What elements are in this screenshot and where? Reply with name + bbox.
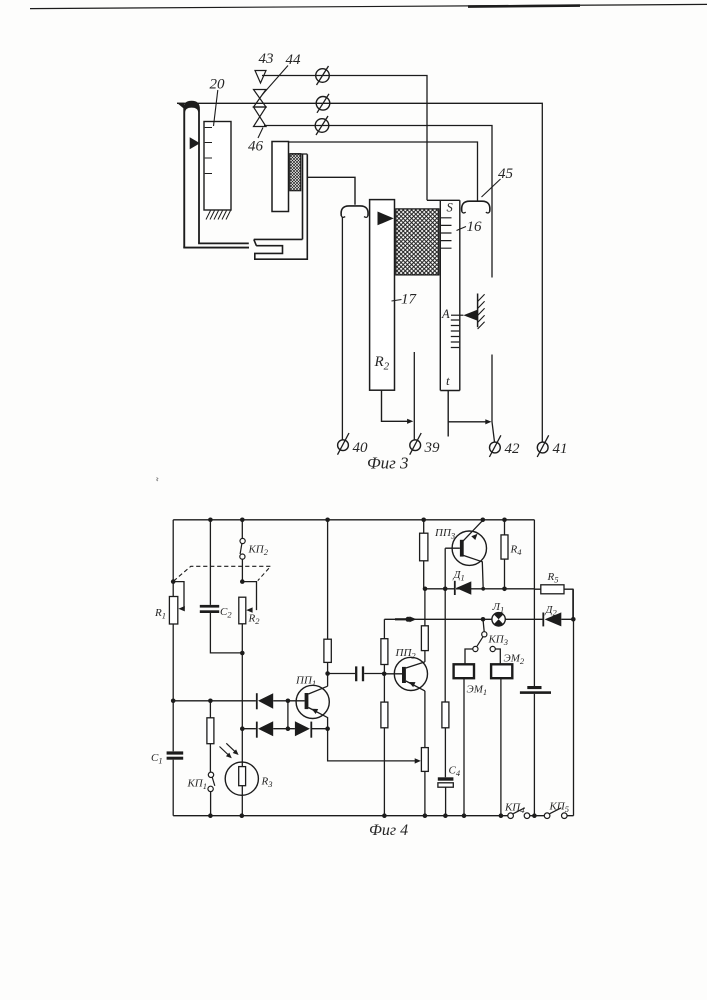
photoresistor R3	[225, 762, 272, 816]
relay EM1	[454, 649, 488, 816]
wire standpipe to terminal 40	[341, 217, 343, 440]
support hatching under cylinder 20	[206, 211, 231, 220]
resistor/switch branch KP1	[187, 701, 215, 816]
svg-text:17: 17	[401, 292, 418, 308]
label A	[441, 307, 450, 321]
channel bottom outer wall	[183, 247, 249, 249]
capacitor C4	[438, 765, 461, 788]
pipe to left standpipe	[307, 177, 355, 205]
svg-text:ПП3: ПП3	[434, 527, 455, 541]
svg-text:С4: С4	[449, 765, 461, 779]
caption Fig 4	[369, 822, 408, 839]
label 45 with pointer	[482, 166, 514, 197]
relay EM2 with contact	[490, 646, 525, 815]
label 16 with pointer	[457, 219, 483, 235]
base divider branch of PP2	[381, 619, 388, 815]
pointer A to wall	[451, 314, 463, 316]
svg-text:41: 41	[553, 441, 568, 457]
node black wedge at line 2 start	[177, 103, 184, 109]
svg-text:С2: С2	[220, 606, 232, 620]
wire pipe line 3 (valve 46 to terminal 42, with gap)	[264, 126, 495, 442]
page top rule with cut-off patent number	[30, 4, 707, 8]
svg-text:R2: R2	[248, 613, 261, 627]
wire left rail upper	[172, 520, 174, 597]
capacitor C1	[151, 751, 183, 765]
wire battery to bottom rail	[533, 694, 535, 816]
label t	[446, 373, 450, 388]
direction arrow on lamp row	[395, 616, 417, 622]
svg-text:ПП2: ПП2	[395, 647, 417, 661]
svg-text:A: A	[441, 307, 450, 321]
resistor R4	[501, 520, 522, 589]
diode D3 (upper left, pointing left)	[257, 693, 273, 709]
svg-text:КП5: КП5	[549, 801, 570, 815]
wire diode D1 row	[423, 587, 535, 592]
resistor R5	[534, 571, 573, 619]
label 44 with pointer	[262, 52, 301, 95]
label 20 with pointer	[210, 77, 226, 127]
terminal 40	[338, 433, 369, 456]
light arrows onto R3	[220, 743, 239, 758]
svg-text:42: 42	[505, 441, 521, 457]
collector branch of PP1	[324, 520, 331, 686]
lower scale ticks in tube 16	[451, 320, 459, 348]
wire pipe line 4 (cylinder to tube 45)	[274, 142, 478, 201]
divider branch x425 lower resistor	[421, 589, 428, 662]
diode D5 (lower right, pointing right)	[295, 721, 311, 738]
resistor R1	[154, 597, 178, 625]
wiper of R1	[171, 579, 185, 611]
wire left rail middle	[172, 624, 174, 751]
switch KP5	[544, 801, 569, 819]
emitter load potentiometer of PP2	[421, 691, 428, 816]
svg-text:Д1: Д1	[453, 569, 465, 583]
tube R2 (fig3)	[370, 200, 395, 391]
piston crosshatch block	[290, 154, 308, 191]
switch KP2	[240, 520, 269, 582]
electrode below tube R2 with arrow link	[382, 390, 414, 424]
label S	[447, 201, 454, 215]
svg-text:Фиг 4: Фиг 4	[369, 822, 408, 839]
coupling capacitor C3	[328, 666, 385, 681]
svg-text:Л1: Л1	[492, 601, 505, 615]
valve 46 (lower bowtie)	[254, 107, 267, 127]
svg-text:39: 39	[424, 440, 441, 456]
emitter wire of PP1 to wiper line	[328, 729, 421, 764]
wire electrode 39	[413, 352, 415, 440]
valve 43 (open triangle)	[255, 71, 266, 84]
wire pipe line 2 (U-tube to terminal 41)	[177, 103, 542, 442]
float arrow in U-tube	[190, 137, 200, 149]
flow symbol on line 3	[315, 116, 329, 135]
svg-text:40: 40	[353, 440, 369, 456]
resistor R2	[239, 597, 260, 626]
electrode below tube 16 with arrow link	[448, 391, 491, 437]
wire lower diode row	[242, 726, 330, 731]
upper scale ticks in tube 16	[441, 218, 452, 248]
piston cylinder (narrow rect)	[272, 142, 289, 212]
svg-text:R3: R3	[261, 776, 273, 790]
channel bottom inner wall	[198, 242, 249, 244]
diode D1	[453, 569, 472, 595]
node dots on bottom rail	[208, 813, 537, 818]
terminal 39	[410, 433, 440, 456]
wire bottom rail	[173, 815, 573, 817]
terminal 41	[537, 435, 567, 457]
base branch of PP3 down to C4	[442, 548, 449, 816]
svg-text:46: 46	[248, 139, 264, 155]
svg-text:КП2: КП2	[248, 544, 269, 558]
transistor PP3	[434, 520, 486, 589]
svg-text:ЭМ1: ЭМ1	[467, 684, 488, 698]
level arrow in tube R2	[378, 212, 394, 226]
capacitor C2	[200, 520, 243, 653]
svg-text:С1: С1	[151, 752, 163, 766]
label 43	[259, 51, 274, 67]
left standpipe curled mouth	[341, 206, 368, 217]
svg-text:R5: R5	[547, 571, 559, 585]
clamp fork	[254, 154, 307, 259]
label 17 with pointer	[392, 292, 418, 308]
wall arrow (black)	[463, 310, 477, 321]
fixed wall with hatching	[478, 294, 485, 330]
svg-text:43: 43	[259, 51, 274, 67]
svg-text:КП4: КП4	[504, 802, 525, 816]
svg-text:Фиг 3: Фиг 3	[367, 454, 409, 473]
tube 16 body	[427, 200, 460, 390]
svg-text:ЭМ2: ЭМ2	[504, 653, 525, 667]
diode D4 (lower left, pointing left)	[257, 721, 273, 738]
svg-text:R1: R1	[154, 607, 166, 621]
divider branch x425 upper resistor	[420, 520, 428, 589]
wire between diode rows	[287, 701, 289, 729]
flow symbol on line 2	[316, 94, 330, 113]
svg-text:КП1: КП1	[187, 778, 208, 792]
svg-text:Д2: Д2	[545, 604, 558, 618]
wire R2 down to diode row	[240, 624, 245, 767]
flow symbol on line 1	[316, 66, 330, 85]
transistor PP2	[382, 647, 428, 691]
caption Fig 3	[367, 454, 409, 473]
svg-text:S: S	[447, 201, 454, 215]
transistor PP1	[295, 675, 329, 729]
lamp L1	[492, 601, 506, 626]
node dots on top rail	[208, 518, 507, 523]
wire pipe line 1 (valve 43 to tube S)	[262, 76, 427, 201]
wiper of R2	[240, 579, 257, 613]
valve 44 (upper bowtie)	[254, 90, 267, 108]
switch KP3	[473, 619, 508, 651]
dashed gang link R1-R2	[174, 566, 271, 581]
terminal 42	[489, 435, 520, 457]
stray mark	[157, 478, 159, 482]
tube 45 curled mouth	[462, 201, 490, 213]
heater crosshatch block 17	[396, 209, 439, 275]
cylinder 20 with scale	[204, 122, 231, 211]
svg-text:КП3: КП3	[488, 634, 509, 648]
svg-text:t: t	[446, 373, 450, 388]
switch KP4	[504, 802, 530, 819]
battery B	[520, 686, 551, 694]
wire left rail lower	[172, 760, 174, 816]
U-tube with black cap	[183, 101, 200, 248]
wire battery branch from top rail	[533, 520, 535, 686]
diode D2	[543, 604, 561, 626]
wire lamp row	[384, 617, 575, 622]
svg-text:16: 16	[467, 219, 483, 235]
wire middle row (diode row 1)	[171, 699, 305, 704]
wire top supply rail	[173, 519, 534, 521]
svg-text:ПП1: ПП1	[295, 675, 316, 689]
label 46 with pointer	[248, 128, 264, 155]
wire right rail	[572, 589, 574, 816]
svg-text:R4: R4	[510, 544, 523, 558]
